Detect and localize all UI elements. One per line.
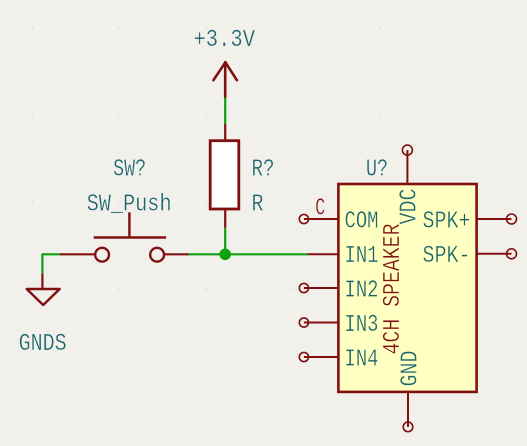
- svg-text:GNDS: GNDS: [19, 331, 67, 358]
- svg-text:U?: U?: [366, 157, 388, 184]
- IC U? 4CH SPEAKER body: [338, 184, 476, 392]
- pin IN4: [299, 347, 378, 374]
- svg-text:IN2: IN2: [345, 278, 379, 305]
- svg-text:IN4: IN4: [345, 347, 379, 374]
- ground GNDS: [27, 273, 60, 305]
- wire from resistor R? to junction: [224, 228, 226, 255]
- svg-text:SPK+: SPK+: [423, 209, 471, 236]
- svg-text:GND: GND: [398, 351, 425, 387]
- svg-text:R?: R?: [252, 156, 275, 183]
- pin COM: [299, 209, 378, 236]
- svg-text:COM: COM: [345, 209, 379, 236]
- pin IN1: [308, 243, 379, 270]
- resistor R?: [210, 124, 239, 228]
- svg-text:SW?: SW?: [113, 157, 146, 184]
- switch SW?: [60, 212, 189, 261]
- wire from +3.3V to resistor R?: [224, 98, 226, 125]
- svg-text:IN3: IN3: [345, 312, 379, 339]
- power symbol +3.3V: [213, 62, 237, 97]
- junction: [219, 249, 231, 261]
- pin IN3: [299, 312, 378, 339]
- wire from junction to IC pin IN1: [225, 253, 307, 255]
- svg-text:SW_Push: SW_Push: [87, 192, 172, 219]
- wire from switch to ground: [42, 254, 59, 273]
- pin IN2: [299, 278, 378, 305]
- svg-text:IN1: IN1: [345, 243, 379, 270]
- svg-text:VDC: VDC: [397, 189, 424, 225]
- svg-text:SPK-: SPK-: [423, 243, 471, 270]
- pin SPK-: [423, 243, 517, 270]
- pin SPK+: [423, 209, 517, 236]
- wire from switch to junction: [189, 253, 226, 255]
- svg-text:+3.3V: +3.3V: [194, 27, 256, 54]
- pin GND: [398, 351, 425, 432]
- svg-text:4CH SPEAKER: 4CH SPEAKER: [380, 224, 407, 355]
- svg-text:R: R: [252, 191, 264, 218]
- pin VDC: [397, 145, 424, 224]
